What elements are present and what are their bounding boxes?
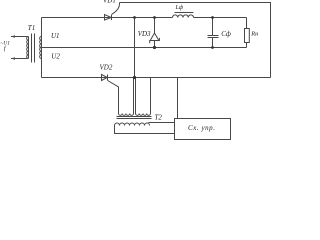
svg-text:U2: U2 bbox=[51, 52, 60, 60]
svg-text:Cф: Cф bbox=[221, 30, 231, 38]
svg-text:VD1: VD1 bbox=[103, 0, 116, 4]
svg-text:VD2: VD2 bbox=[100, 63, 113, 71]
svg-text:U1: U1 bbox=[51, 32, 60, 40]
svg-text:T2: T2 bbox=[155, 113, 163, 121]
svg-text:Lф: Lф bbox=[175, 4, 184, 11]
svg-text:Rн: Rн bbox=[250, 31, 258, 38]
svg-text:T1: T1 bbox=[28, 24, 35, 32]
svg-text:VD3: VD3 bbox=[138, 30, 151, 38]
svg-text:Сх. упр.: Сх. упр. bbox=[188, 124, 216, 132]
